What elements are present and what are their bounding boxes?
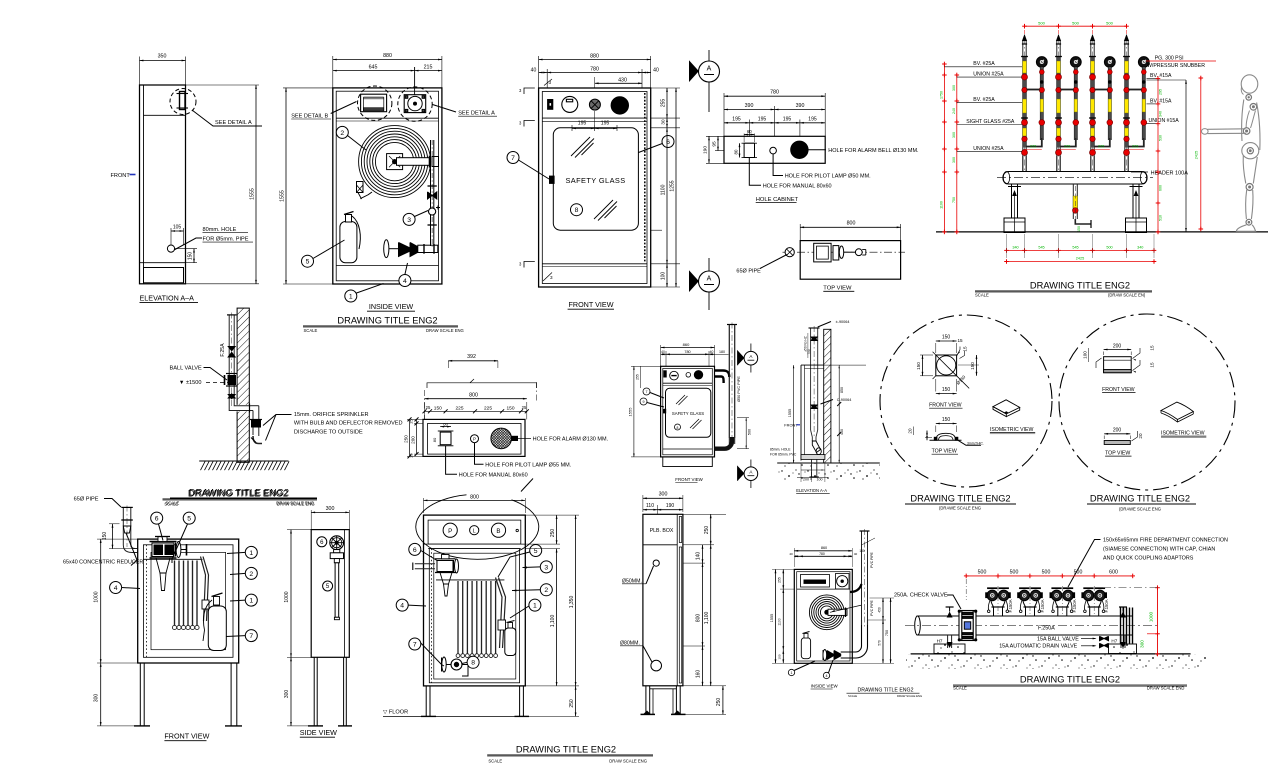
svg-text:9: 9 [643,400,645,404]
green 225 dim [1127,149,1144,151]
extinguisher plb small [505,628,516,656]
svg-text:40: 40 [531,68,537,74]
right dim 750 [890,598,892,663]
svg-text:DISCHARGE TO OUTSIDE: DISCHARGE TO OUTSIDE [294,429,363,435]
section dims right [838,365,840,463]
svg-text:390: 390 [745,103,754,109]
svg-text:TOP VIEW: TOP VIEW [1105,450,1130,456]
pipe stub out left plb [415,563,435,565]
dim 500 right [745,418,747,449]
dim 1555 left section [793,365,795,463]
svg-text:DRAWING TITLE ENG2: DRAWING TITLE ENG2 [910,494,1010,504]
ground line [936,231,1268,233]
svg-text:C-90064: C-90064 [837,398,852,402]
svg-text:300: 300 [326,506,335,512]
balloon 8 plb [467,656,479,668]
svg-text:60: 60 [747,129,752,134]
balloon 4 [399,275,411,287]
svg-text:AND QUICK COUPLING ADAPTORS: AND QUICK COUPLING ADAPTORS [1103,556,1194,562]
balloon leaders small view [788,669,794,675]
SIDE VIEW box [311,530,349,658]
header label leader [1131,171,1148,173]
P L B circles [443,523,457,537]
centerline top view [783,251,906,253]
svg-text:F.150A: F.150A [1040,599,1045,612]
svg-text:500: 500 [748,429,752,435]
dim 350 top [139,57,141,86]
svg-text:600: 600 [1109,569,1118,575]
svg-text:15A AUTOMATIC DRAIN VALVE: 15A AUTOMATIC DRAIN VALVE [999,644,1077,650]
svg-text:750: 750 [807,349,811,355]
svg-text:SIDE VIEW: SIDE VIEW [300,728,337,737]
dim 25/150/225/225/150/25 [425,410,527,412]
svg-text:P: P [448,528,452,535]
siamese connection at 998.0 [994,607,1003,616]
plb box outline [643,514,683,686]
dim 392 [448,360,498,362]
small blue arrow glyph [130,174,136,176]
ground hatch [199,460,288,462]
250A check valve [959,611,976,641]
cabinet outline in section [800,365,802,460]
yellow pipe segments [1023,61,1027,73]
svg-text:BV. #25A: BV. #25A [973,97,995,103]
svg-text:7: 7 [511,155,515,162]
manual hole rect detail [440,432,451,445]
dc1 dim 150 right rotated [958,364,979,366]
svg-text:40: 40 [653,68,659,74]
svg-text:225: 225 [1030,145,1036,149]
valve mechanism top view [814,243,831,262]
svg-text:1,350: 1,350 [569,596,575,609]
section marker A top [708,50,710,112]
small inside view cabinet [794,569,852,663]
svg-text:40: 40 [710,350,714,354]
svg-text:60: 60 [443,421,448,426]
green 225 dim [1059,149,1076,151]
svg-text:4: 4 [114,585,118,592]
balloons bottom-left right [245,546,257,558]
leader SEE DETAIL A right [433,105,457,113]
leader hole for alarm [518,437,532,439]
yellow pipe segments [1125,61,1129,73]
svg-text:H7: H7 [937,639,943,644]
branch link [1061,89,1074,91]
ball valve [228,376,236,385]
elbow top thick [850,584,862,592]
svg-text:150: 150 [916,362,921,370]
svg-text:P: P [473,437,476,442]
plb box legs [645,686,647,715]
balloon 4 left [110,582,122,594]
svg-text:150: 150 [942,335,951,341]
svg-text:255: 255 [636,374,640,380]
leaders to sprinkler [263,415,292,426]
svg-text:Ø80MM.: Ø80MM. [620,640,640,646]
pipe assembly main at 1024.5 [1022,40,1024,172]
dim 195 x4 [748,120,750,137]
plb box holes [653,560,659,566]
svg-text:DRAW SCALE END: DRAW SCALE END [1147,685,1185,690]
dark pipe interior [1091,57,1094,148]
svg-text:110: 110 [646,503,654,509]
dc1 dim 150 top [936,340,957,342]
small glass handle tick [663,409,665,413]
gauge riser [1107,67,1109,140]
dim 645 / 215 [414,67,416,101]
svg-text:80mm. HOLE: 80mm. HOLE [203,227,237,233]
svg-text:1: 1 [349,293,353,300]
gauge square [836,574,850,590]
svg-text:8: 8 [471,660,475,667]
svg-text:545: 545 [1072,246,1078,250]
svg-text:250: 250 [569,699,575,708]
right glass edge serration [644,93,646,262]
riser pipe right of small cabinet [728,325,730,445]
leader hole for pilot [475,443,484,465]
bottom valve plb [441,658,443,672]
svg-text:TOP VIEW: TOP VIEW [932,449,957,455]
dc1 20 dim [925,436,932,438]
legs bottom-left [139,663,141,726]
svg-text:20: 20 [908,428,913,434]
svg-text:100: 100 [778,654,782,659]
svg-text:SCALE: SCALE [975,293,989,298]
svg-text:195: 195 [732,117,741,123]
svg-text:1555: 1555 [770,614,774,622]
riser pipe left [122,507,124,545]
svg-text:500: 500 [1042,569,1051,575]
svg-text:250A. CHECK VALVE: 250A. CHECK VALVE [894,593,948,599]
svg-text:150: 150 [506,406,514,412]
reducer fitting [121,519,133,521]
elbow top into cabinet [715,371,730,384]
svg-text:1000: 1000 [94,591,100,602]
svg-text:1: 1 [249,550,253,557]
svg-text:25: 25 [410,453,414,457]
svg-text:500: 500 [1074,569,1083,575]
svg-text:1: 1 [791,671,793,675]
svg-text:FRONT: FRONT [784,422,798,427]
balloon 8 front view [571,204,583,216]
red fittings on main [1056,74,1062,80]
svg-text:880: 880 [383,53,392,59]
pipe down to header [1056,156,1058,172]
svg-text:240: 240 [952,108,956,114]
svg-text:BALL VALVE: BALL VALVE [170,366,203,372]
dim 150 pipe [112,524,114,549]
svg-text:5: 5 [534,548,538,555]
siamese connection at 1030.0 [1026,607,1035,616]
pilot hole P circle [471,435,479,443]
svg-text:800: 800 [469,393,478,399]
svg-text:300: 300 [94,694,100,703]
svg-text:1,100: 1,100 [550,615,556,628]
hose reel coil [359,126,431,198]
union fitting arrows [227,352,236,358]
svg-text:65Ø PIPE: 65Ø PIPE [736,269,761,275]
funnel plb [440,573,452,585]
svg-text:SCALE: SCALE [304,328,318,333]
leader down to PLB balloon [521,479,533,492]
svg-text:HOLE FOR MANUAL 80x60: HOLE FOR MANUAL 80x60 [459,472,528,478]
svg-text:UNION #25A: UNION #25A [973,146,1004,152]
dc2 top view bar [1104,441,1130,445]
svg-text:FOR 65mm. PVC: FOR 65mm. PVC [770,452,797,456]
svg-text:340: 340 [1012,246,1018,250]
svg-text:450: 450 [840,429,844,435]
pipe assembly main at 1058.5 [1056,40,1058,172]
svg-text:160: 160 [696,670,702,679]
small cabinet base slab [663,457,713,467]
svg-text:225: 225 [1132,145,1138,149]
svg-text:100: 100 [1083,351,1088,359]
svg-text:1000: 1000 [284,591,290,602]
svg-text:PLB. BOX: PLB. BOX [650,528,674,534]
alarm hole hatched circle [491,428,512,449]
svg-text:750: 750 [885,630,889,636]
svg-text:ISOMETRIC VIEW: ISOMETRIC VIEW [990,427,1034,433]
svg-text:ELEVATION A–A: ELEVATION A–A [140,294,195,303]
small panel circles [670,371,679,380]
svg-text:200: 200 [803,478,809,482]
svg-text:800: 800 [696,614,702,623]
side view down pipe [335,563,339,618]
left dims 25/200/250/25 [407,418,423,420]
svg-text:150: 150 [434,406,442,412]
pressure gauge [1104,57,1115,68]
svg-text:(SIAMESE CONNECTION) WITH CAP,: (SIAMESE CONNECTION) WITH CAP, CHIAN [1103,547,1215,553]
balloon 1 [345,290,357,302]
svg-text:15: 15 [963,346,968,352]
svg-text:DRAWING TITLE ENG2: DRAWING TITLE ENG2 [516,745,616,755]
svg-text:7: 7 [249,633,253,640]
hanging nozzle diagonal [201,557,206,622]
svg-text:65Ø PIPE: 65Ø PIPE [74,497,99,503]
svg-text:SEE DETAIL A: SEE DETAIL A [458,111,495,117]
svg-text:1555: 1555 [788,409,792,417]
svg-text:430: 430 [618,78,627,84]
svg-text:15: 15 [1150,345,1155,351]
hose reel arm [397,158,430,166]
leader 65 pipe top view [760,255,787,269]
dc2 dim 200 top view [1104,433,1130,435]
balloon 5 side view [323,581,333,591]
left wall section marks [524,88,535,94]
balloon 3 [403,213,415,225]
svg-text:40: 40 [789,552,793,556]
svg-text:500: 500 [1106,246,1112,250]
svg-text:DRAW SCALE ENG: DRAW SCALE ENG [897,694,922,698]
balloons plb left [409,543,421,555]
small key rect [664,371,666,377]
riser fittings [1073,70,1078,75]
pipe down to header [1124,156,1126,172]
svg-text:TOP VIEW: TOP VIEW [823,286,852,292]
svg-text:SAFETY GLASS: SAFETY GLASS [672,411,704,416]
dark pipe interior [1125,57,1128,148]
svg-text:5: 5 [306,259,310,266]
branch link [1129,89,1142,91]
siamese connection at 1094.2 [1090,607,1099,616]
pipe assembly main at 1092.5 [1090,40,1092,172]
marker A mid top [750,344,752,373]
svg-text:▽ FLOOR: ▽ FLOOR [383,710,408,716]
gauge riser [1039,67,1041,140]
small cabinet top dims [794,550,852,552]
dc1 top view dome [930,439,962,441]
svg-text:40: 40 [661,350,665,354]
svg-text:2: 2 [340,130,344,137]
svg-text:FOR Ø5mm. PIPE: FOR Ø5mm. PIPE [203,237,249,243]
pressure gauge [1036,57,1047,68]
svg-text:25: 25 [410,419,414,423]
svg-text:FRONT: FRONT [111,173,131,179]
dc2 dim 20 [1132,431,1138,441]
svg-text:780: 780 [684,350,690,354]
svg-text:1750: 1750 [940,91,944,99]
svg-text:A: A [707,66,712,73]
svg-text:340: 340 [1137,246,1143,250]
svg-text:SEE DETAIL A: SEE DETAIL A [215,120,252,126]
small cabinet left dims [775,569,777,663]
leader into hub [830,605,862,612]
dim 800 [425,398,527,400]
dark pipe interior [1023,57,1026,148]
svg-text:300: 300 [284,690,290,699]
svg-text:1: 1 [249,598,253,605]
hole for pilot lamp circle [770,147,777,154]
svg-text:545: 545 [1038,246,1044,250]
svg-text:Ø50 PVC PIPE: Ø50 PVC PIPE [737,376,741,402]
hole cabinet rect [724,136,825,163]
svg-text:HOLE FOR MANUAL 80x60: HOLE FOR MANUAL 80x60 [763,183,832,189]
pilot circle [589,99,600,110]
svg-text:2425: 2425 [1076,257,1084,261]
svg-text:510: 510 [1159,215,1163,221]
svg-text:200: 200 [1113,428,1122,434]
svg-text:F.250A: F.250A [1038,626,1055,632]
svg-text:5: 5 [187,516,191,523]
svg-text:30: 30 [661,119,666,125]
funnel below valve [156,558,170,573]
svg-text:140: 140 [696,552,702,561]
leader pilot lamp [773,154,783,176]
riser elbow to main [1061,138,1076,147]
svg-text:85mm. HOLE: 85mm. HOLE [770,447,791,451]
svg-text:250: 250 [704,526,710,535]
angle valve plb [437,561,453,572]
svg-text:105: 105 [173,225,182,231]
legs plb [425,686,427,717]
svg-text:W/PRESSUR SNUBBER: W/PRESSUR SNUBBER [1147,63,1205,69]
pressure gauge [1138,57,1149,68]
left dims 190 95 [706,135,724,137]
pipe out right and up [841,620,862,652]
svg-text:500: 500 [1038,20,1045,25]
svg-text:15mm. ORIFICE SPRINKLER: 15mm. ORIFICE SPRINKLER [294,412,369,418]
svg-text:BV. #15A: BV. #15A [1150,98,1172,104]
svg-text:PVC PIPE: PVC PIPE [870,551,874,567]
dc1 15 hooks [957,347,960,356]
svg-text:225: 225 [484,406,492,412]
drains to ground [947,635,949,648]
balloon 2 [336,126,348,138]
balloon 7 and handle [507,152,519,164]
small cabinet left balloons [643,388,650,395]
green 225 dim [1025,149,1042,151]
taper nozzle [811,430,813,441]
svg-text:255: 255 [661,99,667,108]
svg-text:F.150A: F.150A [1008,599,1013,612]
dim 1555 right of elevation [186,84,260,86]
hole circle 80mm [167,245,174,252]
svg-text:THIC.: THIC. [975,441,984,445]
svg-text:2425: 2425 [1195,151,1199,159]
dim 390 390 [774,106,776,136]
svg-text:255: 255 [778,577,782,583]
dim 1555 left of inside view [283,87,333,89]
small extinguisher [801,638,810,659]
detail B dashed circle and panel [358,86,392,120]
svg-text:1,100: 1,100 [704,612,710,625]
top red dim 500s bottom-right [966,575,1132,577]
detail A dashed circle and bell panel [398,87,432,121]
svg-text:6: 6 [155,516,159,523]
small cabinet top dims [661,347,715,349]
detail circle 1 dashed [880,315,1052,487]
balloon 6 right [662,136,674,148]
hose tail nozzle [361,192,373,199]
support legs [1011,184,1013,218]
svg-text:▼ ±1500: ▼ ±1500 [179,380,202,386]
riser dark interior [1109,67,1112,138]
svg-text:3: 3 [407,217,411,224]
svg-text:1000: 1000 [1148,611,1153,622]
svg-text:1555: 1555 [280,190,286,202]
svg-text:95: 95 [712,141,718,147]
angle hose valve top [152,543,174,557]
riser dark interior [1143,67,1146,138]
svg-text:ELEVATION A-A: ELEVATION A-A [796,488,827,493]
svg-text:300: 300 [952,157,956,163]
svg-text:±-90064: ±-90064 [836,320,850,324]
wall hatched strip [237,308,249,462]
right red dim columns [1157,79,1159,232]
svg-text:SAFETY GLASS: SAFETY GLASS [565,176,625,185]
svg-text:15A BALL VALVE: 15A BALL VALVE [1037,636,1079,642]
leader C-90064 [821,400,834,405]
svg-text:15: 15 [1150,362,1155,368]
balloons top 6 5 [151,512,163,524]
svg-text:1555: 1555 [250,188,256,200]
svg-text:645: 645 [369,65,378,71]
svg-text:FRONT VIEW: FRONT VIEW [929,403,962,409]
gate valve assembly bottom [385,240,387,258]
svg-text:SCALE: SCALE [488,759,502,764]
svg-text:2: 2 [544,587,548,594]
dc2 isometric curved plate [1161,402,1193,419]
svg-text:6: 6 [413,547,417,554]
white gap in wall for pipe [237,405,250,412]
svg-text:180: 180 [719,350,725,354]
svg-text:7: 7 [413,641,417,648]
svg-text:800: 800 [847,221,856,227]
svg-text:DRAWING TITLE ENG2: DRAWING TITLE ENG2 [858,687,914,693]
leader 80mm hole text [174,238,202,250]
svg-text:450: 450 [877,607,881,613]
svg-text:7: 7 [646,390,648,394]
